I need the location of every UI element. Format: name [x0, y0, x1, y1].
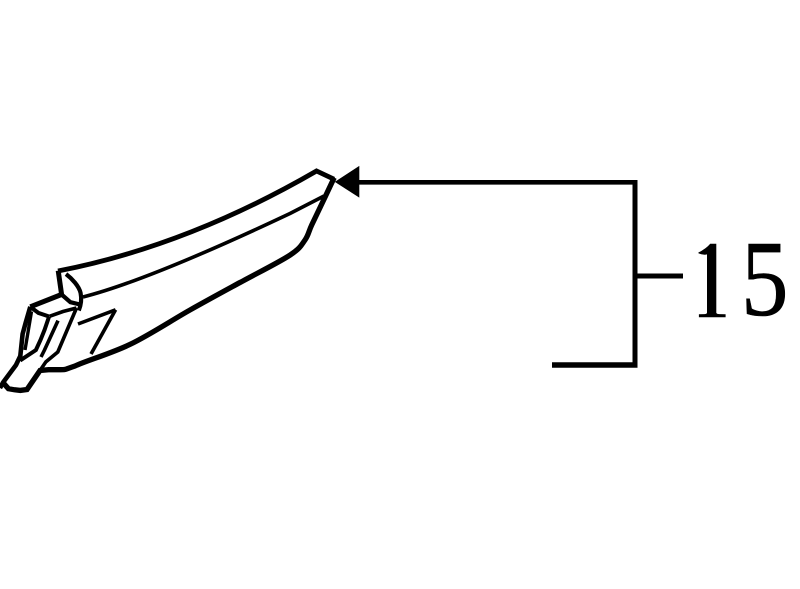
bracket bottom tick	[552, 362, 638, 368]
foot top edge	[30, 307, 49, 317]
end cap bottom edge	[62, 295, 80, 305]
bracket middle tick to label	[635, 274, 683, 279]
arrowhead	[335, 166, 360, 198]
end cap right rounded edge	[66, 274, 81, 310]
molding body top edge and tip edge	[58, 171, 334, 271]
notch diagonal 1	[40, 308, 77, 371]
foot left outline	[0, 307, 30, 388]
foot inner crease	[25, 312, 32, 351]
digit 1	[698, 244, 725, 318]
arrow shaft	[357, 180, 635, 185]
notch bar 2	[78, 310, 116, 324]
notch bar 1	[50, 308, 77, 316]
foot right edge	[20, 317, 49, 361]
bracket vertical line	[633, 180, 638, 368]
end cap left edge	[58, 271, 61, 295]
molding interior crease line	[83, 196, 324, 297]
foot flap inner edge	[41, 321, 58, 357]
notch diagonal 2	[91, 310, 116, 354]
molding right end and bottom outline	[4, 178, 335, 391]
edge from cap to foot	[30, 295, 61, 307]
digit 5	[741, 226, 789, 334]
